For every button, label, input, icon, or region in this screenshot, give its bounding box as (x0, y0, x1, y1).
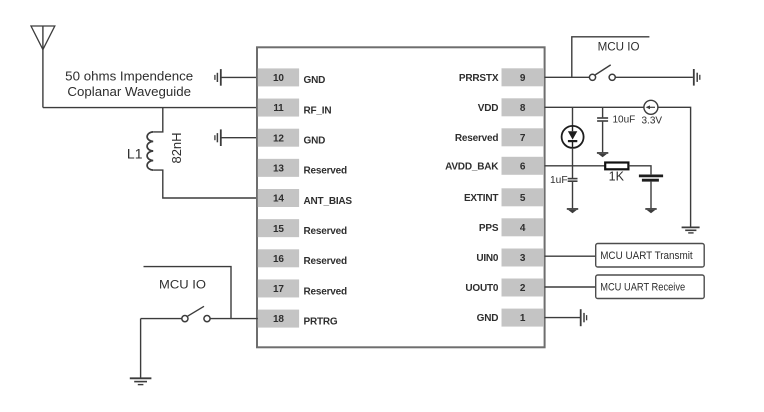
pin 11 RF_IN (258, 99, 332, 117)
svg-text:4: 4 (520, 223, 526, 234)
svg-text:PPS: PPS (479, 223, 499, 234)
svg-text:7: 7 (520, 133, 526, 144)
chassis ground (left) (215, 129, 221, 146)
pin 3 UIN0 (476, 249, 544, 267)
svg-text:1uF: 1uF (550, 175, 568, 186)
svg-text:ANT_BIAS: ANT_BIAS (304, 196, 353, 207)
wire pin18 to switch (210, 318, 258, 320)
wire UOUT0 to receive box (545, 286, 596, 288)
wire switch to ground (140, 319, 142, 378)
wire AVDD_BAK (545, 165, 606, 167)
svg-text:8: 8 (520, 103, 526, 114)
wire pin gnd (221, 137, 258, 139)
chassis ground (pin1) (581, 309, 587, 326)
pin 1 GND (477, 309, 544, 327)
resistor R1 1K (605, 163, 628, 170)
svg-text:GND: GND (304, 136, 326, 147)
pin 16 Reserved (258, 249, 347, 267)
wire pin1 GND (545, 317, 581, 319)
node MCU UART Receive (596, 275, 705, 299)
svg-text:RF_IN: RF_IN (304, 105, 332, 116)
svg-text:10: 10 (273, 73, 284, 84)
svg-text:VDD: VDD (478, 103, 499, 114)
svg-text:1K: 1K (609, 170, 625, 184)
svg-text:12: 12 (273, 133, 284, 144)
wire inductor to ANT_BIAS (153, 170, 258, 198)
svg-text:15: 15 (273, 224, 284, 235)
pin 14 ANT_BIAS (258, 189, 353, 207)
source 3.3V (644, 100, 658, 114)
svg-text:18: 18 (273, 314, 284, 325)
pin 15 Reserved (258, 219, 347, 237)
wire resistor to cap (629, 166, 651, 175)
signal ground arrow (C3) (645, 208, 656, 213)
svg-text:PRTRG: PRTRG (304, 316, 338, 327)
svg-text:6: 6 (520, 161, 526, 172)
svg-text:MCU UART Transmit: MCU UART Transmit (600, 250, 693, 262)
pin 13 Reserved (258, 159, 347, 177)
svg-text:3: 3 (520, 253, 526, 264)
svg-text:EXTINT: EXTINT (464, 193, 498, 204)
svg-text:Reserved: Reserved (455, 133, 499, 144)
svg-text:MCU IO: MCU IO (159, 279, 206, 291)
earth ground (right) (682, 227, 700, 233)
svg-text:10uF: 10uF (613, 115, 636, 126)
pin 12 GND (258, 129, 325, 147)
note: 50 ohms Impendence Coplanar Waveguide (65, 69, 193, 99)
svg-text:11: 11 (273, 103, 284, 114)
wire antenna feed to RF_IN (43, 107, 258, 109)
svg-text:UOUT0: UOUT0 (465, 283, 499, 294)
earth ground (bottom left) (130, 378, 152, 384)
svg-text:50 ohms Impendence: 50 ohms Impendence (65, 69, 193, 84)
svg-text:Reserved: Reserved (304, 286, 348, 297)
capacitor C1 10uF (597, 107, 608, 152)
pin 6 AVDD_BAK (445, 157, 544, 175)
wire cap to ground (650, 182, 652, 209)
signal ground arrow (10uF) (597, 152, 608, 157)
wire VDD to diode (572, 107, 574, 126)
capacitor C2 1uF (568, 166, 578, 208)
wire VDD rail right (658, 107, 691, 226)
svg-text:Reserved: Reserved (304, 226, 348, 237)
node MCU IO (bottom) (144, 267, 232, 319)
pin 2 UOUT0 (465, 279, 544, 297)
pin 4 PPS (479, 218, 544, 236)
pin 17 Reserved (258, 279, 347, 297)
svg-text:GND: GND (304, 75, 326, 86)
pin 9 PRRSTX (459, 68, 544, 86)
svg-text:L1: L1 (127, 145, 143, 161)
svg-text:3.3V: 3.3V (642, 116, 663, 127)
svg-text:MCU IO: MCU IO (598, 41, 640, 53)
node MCU IO (top) (572, 37, 650, 78)
signal ground arrow (1uF) (567, 208, 578, 213)
pin 8 VDD (478, 98, 544, 116)
svg-text:82nH: 82nH (169, 132, 184, 163)
svg-text:GND: GND (477, 313, 499, 324)
svg-text:Coplanar Waveguide: Coplanar Waveguide (67, 84, 191, 99)
wire pin gnd (221, 76, 258, 78)
chassis ground (top right) (694, 69, 700, 86)
node MCU UART Transmit (596, 244, 705, 268)
diode D1 (circled) (562, 126, 584, 148)
switch SW2 (141, 306, 210, 321)
svg-text:13: 13 (273, 163, 284, 174)
wire switch to ground (615, 76, 693, 78)
svg-text:17: 17 (273, 284, 284, 295)
svg-text:UIN0: UIN0 (476, 253, 499, 264)
pin 7 Reserved (455, 128, 544, 146)
wire diode to AVDD_BAK node (572, 148, 574, 166)
antenna (31, 26, 55, 108)
wire VDD rail (545, 106, 644, 108)
svg-text:AVDD_BAK: AVDD_BAK (445, 161, 499, 172)
wire RF node to inductor (153, 108, 163, 132)
svg-text:Reserved: Reserved (304, 166, 348, 177)
wire pin9 to switch (545, 76, 590, 78)
chassis ground (left) (215, 69, 221, 86)
svg-text:MCU UART Receive: MCU UART Receive (600, 282, 685, 294)
svg-text:PRRSTX: PRRSTX (459, 73, 499, 84)
svg-text:2: 2 (520, 283, 526, 294)
svg-text:16: 16 (273, 254, 284, 265)
svg-text:14: 14 (273, 194, 284, 205)
IC U1 body (257, 47, 545, 347)
capacitor C3 (polarized) (639, 176, 663, 180)
svg-text:Reserved: Reserved (304, 256, 348, 267)
inductor L1 (147, 132, 153, 170)
pin 10 GND (258, 68, 325, 86)
pin 5 EXTINT (464, 188, 544, 206)
svg-text:1: 1 (520, 313, 526, 324)
wire UIN0 to transmit box (545, 255, 596, 257)
svg-text:9: 9 (520, 73, 526, 84)
switch SW1 (589, 65, 615, 81)
pin 18 PRTRG (258, 310, 338, 328)
svg-text:5: 5 (520, 193, 526, 204)
